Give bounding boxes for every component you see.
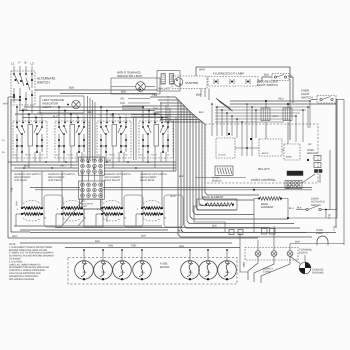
svg-text:BLK: BLK <box>95 240 100 243</box>
svg-text:RELAYS: RELAYS <box>258 167 270 171</box>
wire bottom bus 3 <box>8 237 258 239</box>
svg-text:GRY: GRY <box>12 235 18 238</box>
wire bottom bus 4 <box>20 242 232 244</box>
oven control box <box>205 124 318 183</box>
svg-text:INDICATOR: INDICATOR <box>81 203 93 206</box>
module captions <box>14 173 167 182</box>
surface unit switch right rear <box>139 114 173 159</box>
broil element <box>197 196 237 210</box>
svg-text:RED: RED <box>278 98 284 101</box>
svg-text:BLU: BLU <box>24 165 29 168</box>
wire alt switch to left edge <box>8 96 14 98</box>
svg-text:B: B <box>25 61 27 65</box>
svg-text:WHT: WHT <box>3 103 9 106</box>
wire oven control bottom link <box>195 177 246 179</box>
oven temp sensor RT1 <box>307 143 322 173</box>
svg-text:BLK: BLK <box>69 86 74 90</box>
left surface indicator light DS1 <box>40 96 84 113</box>
wire BLK main top bus <box>35 89 157 91</box>
wire left edge vertical 1 <box>7 97 9 238</box>
notes block <box>9 243 54 281</box>
fuse 30A at x=227 <box>218 249 237 280</box>
svg-text:AND ELEMENT: AND ELEMENT <box>48 176 65 179</box>
wire left edge vertical 2 <box>11 100 30 232</box>
svg-text:PRP: PRP <box>131 245 137 248</box>
svg-text:BLOCK: BLOCK <box>160 265 170 269</box>
fuse block <box>68 258 237 285</box>
svg-text:SURFACE UNIT SWITCH: SURFACE UNIT SWITCH <box>140 173 167 176</box>
oven light switch <box>301 89 336 104</box>
wire oven control top drops <box>211 100 311 156</box>
connector grid J1 <box>79 157 105 175</box>
svg-text:H2 H1: H2 H1 <box>25 154 32 157</box>
wire right column x346 <box>335 100 337 105</box>
wire bundle turns to right side <box>178 193 312 238</box>
wire right horizontal band <box>215 107 310 122</box>
svg-text:BROIL: BROIL <box>262 152 269 155</box>
svg-text:3. CAUTION:: 3. CAUTION: <box>9 260 23 263</box>
wire ORN indicator feed <box>24 106 143 108</box>
wire starter drops <box>204 89 206 98</box>
svg-text:NC: NC <box>308 143 312 146</box>
wire oven feed line 1 <box>30 187 80 189</box>
svg-text:CLOCK: CLOCK <box>218 154 226 157</box>
svg-text:FLUORESCENT LAMP: FLUORESCENT LAMP <box>213 72 244 76</box>
fuse 15A at x=208 <box>199 249 218 280</box>
svg-text:BLU: BLU <box>328 214 331 219</box>
svg-text:DANGEROUS OPERATION.: DANGEROUS OPERATION. <box>9 275 39 278</box>
svg-text:30A: 30A <box>82 271 87 274</box>
wire sensor leads <box>302 174 315 183</box>
surface element left rear <box>17 201 47 222</box>
door actuated switch <box>287 198 337 220</box>
wire WHT to right column <box>290 243 344 245</box>
relay coils top <box>261 108 292 121</box>
svg-text:YEL: YEL <box>120 98 125 101</box>
svg-text:MODULE: MODULE <box>212 179 222 182</box>
svg-text:LABEL ALL WIRES PRIOR TO: LABEL ALL WIRES PRIOR TO <box>9 263 41 266</box>
svg-text:NOTE:: NOTE: <box>9 243 16 246</box>
svg-text:20A: 20A <box>120 271 125 274</box>
alternate switch SW1 <box>11 61 35 106</box>
surface element left front <box>57 201 87 222</box>
wire bottom bus 2 <box>30 232 336 234</box>
svg-text:RIGHT FRONT: RIGHT FRONT <box>104 179 120 182</box>
svg-text:SWITCH: SWITCH <box>37 81 50 85</box>
wire RED drop right of fuse block <box>240 233 248 273</box>
wire x290 vertical <box>289 79 291 140</box>
wire door switch to oven light <box>325 210 327 219</box>
svg-text:BLU: BLU <box>53 116 58 119</box>
wire hot box to elements <box>62 199 84 226</box>
svg-text:LEFT REAR: LEFT REAR <box>14 179 27 182</box>
node oven control <box>250 138 252 140</box>
fuse 20A at x=103 <box>94 249 113 280</box>
svg-text:BLK: BLK <box>178 230 183 233</box>
right surface indicator light DS2 <box>111 71 160 95</box>
wire element loops <box>44 195 183 227</box>
wire extra feed <box>22 117 168 119</box>
wire lamp right to fluorescent switch <box>258 77 272 81</box>
svg-text:H2 H1: H2 H1 <box>67 154 74 157</box>
wire BLU feed <box>15 113 160 115</box>
wire relay feeds <box>265 101 267 108</box>
svg-text:H2 H1: H2 H1 <box>109 154 116 157</box>
wire right bus 2 <box>230 104 336 228</box>
starter assembly <box>172 76 207 89</box>
wire drops to module terminals <box>16 106 163 118</box>
ballast T1 <box>157 71 180 92</box>
svg-text:LEFT FRONT: LEFT FRONT <box>48 179 63 182</box>
svg-text:INDICATOR LIGHT: INDICATOR LIGHT <box>117 74 143 78</box>
svg-text:SEE WIRING DIAGRAM.: SEE WIRING DIAGRAM. <box>9 278 35 281</box>
wire element bottom bus <box>14 225 162 227</box>
svg-text:AND ELEMENT: AND ELEMENT <box>104 176 121 179</box>
chassis ground G1 <box>290 255 324 275</box>
bake element <box>258 197 282 209</box>
wire bottom bus 1 <box>55 227 270 229</box>
oven lamp DS3 <box>316 229 328 246</box>
wire RED right bus <box>230 100 310 102</box>
svg-text:WHT: WHT <box>273 115 279 118</box>
svg-text:SURFACE UNIT SWITCH: SURFACE UNIT SWITCH <box>104 173 131 176</box>
hot indicator light box <box>80 199 101 209</box>
wire WHT lamp to right column <box>196 67 290 76</box>
connector grid J2 hot indicator <box>79 181 105 199</box>
svg-text:AND ELEMENT: AND ELEMENT <box>140 176 157 179</box>
svg-text:SURFACE UNIT SWITCH: SURFACE UNIT SWITCH <box>14 173 41 176</box>
svg-text:BALLAST: BALLAST <box>159 87 172 91</box>
svg-text:BLK: BLK <box>199 111 204 114</box>
svg-text:RED: RED <box>171 195 176 198</box>
wire dashed vertical <box>167 96 169 148</box>
node top right column <box>289 75 291 77</box>
wire oven feed line 2 <box>35 189 80 191</box>
surface unit switch right front <box>97 114 131 159</box>
svg-text:CORD: CORD <box>263 271 271 274</box>
svg-text:BLK: BLK <box>141 235 146 238</box>
wire drops right of module4 <box>175 117 177 171</box>
clock sub-box <box>216 138 235 158</box>
fuse 30A at x=84 <box>75 249 94 280</box>
relay sub-box 2 <box>284 144 300 160</box>
svg-text:15A: 15A <box>140 271 145 274</box>
connector block right <box>285 181 302 189</box>
wire broil element return <box>194 206 225 232</box>
wire bus band below modules <box>8 159 176 171</box>
svg-text:BLK: BLK <box>121 90 126 94</box>
svg-text:BEFORE REMOVING WIRE COVER: BEFORE REMOVING WIRE COVER <box>9 249 47 252</box>
svg-text:DISCONNECTION WHEN SERVICING: DISCONNECTION WHEN SERVICING <box>9 266 49 269</box>
svg-text:SENSOR: SENSOR <box>307 152 318 155</box>
svg-text:YEL: YEL <box>152 93 158 97</box>
svg-text:BAKE: BAKE <box>286 156 292 159</box>
svg-text:L2: L2 <box>31 62 35 66</box>
svg-text:CAN CAUSE IMPROPER AND: CAN CAUSE IMPROPER AND <box>9 272 41 275</box>
relay sub-box 1 <box>259 139 282 156</box>
svg-text:SURFACE UNIT SWITCH: SURFACE UNIT SWITCH <box>48 173 75 176</box>
svg-text:H2 H1: H2 H1 <box>151 154 158 157</box>
svg-text:TAN: TAN <box>153 108 158 111</box>
wire harness nested corners <box>122 93 205 235</box>
wire bake element drops <box>254 199 259 233</box>
svg-text:STARTER: STARTER <box>185 81 198 85</box>
svg-text:BLU: BLU <box>289 207 294 210</box>
svg-text:WHT: WHT <box>199 68 206 72</box>
svg-text:TAN: TAN <box>106 159 111 162</box>
svg-text:AND ELEMENT: AND ELEMENT <box>14 176 31 179</box>
wire alternate switch tails <box>19 103 21 111</box>
spark module connector <box>212 166 233 182</box>
svg-text:BLU: BLU <box>333 226 336 231</box>
harness crossover hatching <box>216 98 233 111</box>
svg-text:YEL: YEL <box>11 187 14 192</box>
svg-text:RED: RED <box>199 204 204 207</box>
svg-text:PNP: PNP <box>16 201 19 206</box>
wire fluor switch to right bus <box>289 77 293 103</box>
svg-text:WHT: WHT <box>295 241 301 244</box>
bus junction dots <box>23 161 149 169</box>
svg-text:2. WIRES CUT TO FEATURES EQUIP: 2. WIRES CUT TO FEATURES EQUIPPED <box>9 252 54 255</box>
module bottom drops <box>17 146 166 168</box>
svg-text:BLK: BLK <box>212 225 217 228</box>
svg-text:BROIL ELEMENT: BROIL ELEMENT <box>202 196 224 199</box>
wire mid vertical bus <box>88 96 96 160</box>
svg-text:TO RANGE: TO RANGE <box>9 258 21 261</box>
svg-text:BLOCK: BLOCK <box>299 252 308 255</box>
splice blocks <box>229 230 234 235</box>
svg-text:RED: RED <box>242 262 245 267</box>
fluorescent lamp <box>208 72 258 87</box>
svg-text:1. DISCONNECT RANGE FROM POWER: 1. DISCONNECT RANGE FROM POWER <box>9 246 53 249</box>
svg-text:15A: 15A <box>206 271 211 274</box>
surface element right rear <box>137 201 167 222</box>
svg-text:L1: L1 <box>11 62 15 66</box>
svg-text:BLK: BLK <box>179 175 184 178</box>
svg-text:LIGHT SWITCH: LIGHT SWITCH <box>257 83 278 87</box>
svg-text:CONTROLS. WIRING PROBLEMS: CONTROLS. WIRING PROBLEMS <box>9 269 45 272</box>
svg-text:20A: 20A <box>101 271 106 274</box>
terminal block TB1 <box>245 226 313 260</box>
surface unit switch left rear <box>13 114 47 159</box>
fluorescent light switch <box>257 73 289 88</box>
wire oven light switch feed left <box>311 99 317 101</box>
svg-text:SCHEMATIC PLEASE RETURN DIAGRA: SCHEMATIC PLEASE RETURN DIAGRAM <box>9 255 54 258</box>
svg-text:SWITCH: SWITCH <box>301 96 312 100</box>
wire RED indicator feed <box>19 110 155 112</box>
svg-text:OVEN CONTROL: OVEN CONTROL <box>251 178 276 182</box>
fuse 20A at x=122 <box>113 249 132 280</box>
wire grid1 to grid2 links <box>83 173 101 181</box>
svg-text:P: P <box>19 61 21 65</box>
wire x330 vertical <box>329 150 331 210</box>
surface element right front <box>97 201 127 222</box>
surface unit switch left front <box>55 114 89 159</box>
svg-text:TAN: TAN <box>120 102 125 105</box>
svg-text:BLK: BLK <box>264 73 269 77</box>
wire relay coil bottoms <box>265 122 267 139</box>
svg-text:30A: 30A <box>188 271 193 274</box>
svg-text:SPARK: SPARK <box>212 177 220 180</box>
wire element risers <box>16 171 162 226</box>
svg-text:TAN: TAN <box>108 245 113 248</box>
wire supply cord leads <box>248 256 290 283</box>
svg-text:YEL: YEL <box>60 165 65 168</box>
fuse 15A at x=142 <box>133 249 152 280</box>
wire mid vertical bus 2 <box>134 118 137 160</box>
svg-text:ELEMENT: ELEMENT <box>261 206 274 209</box>
svg-text:BLK: BLK <box>297 207 302 210</box>
relay contact block (filled) <box>287 171 303 176</box>
wire bottom bus 5 <box>65 247 240 249</box>
wire sub-box links <box>235 147 259 149</box>
svg-text:30A: 30A <box>225 271 230 274</box>
svg-text:BLK: BLK <box>196 93 201 97</box>
fuse 30A at x=190 <box>181 249 200 280</box>
svg-text:RED: RED <box>153 112 158 115</box>
wire oven light switch to right column <box>336 100 337 210</box>
svg-text:GROUND: GROUND <box>312 272 324 275</box>
